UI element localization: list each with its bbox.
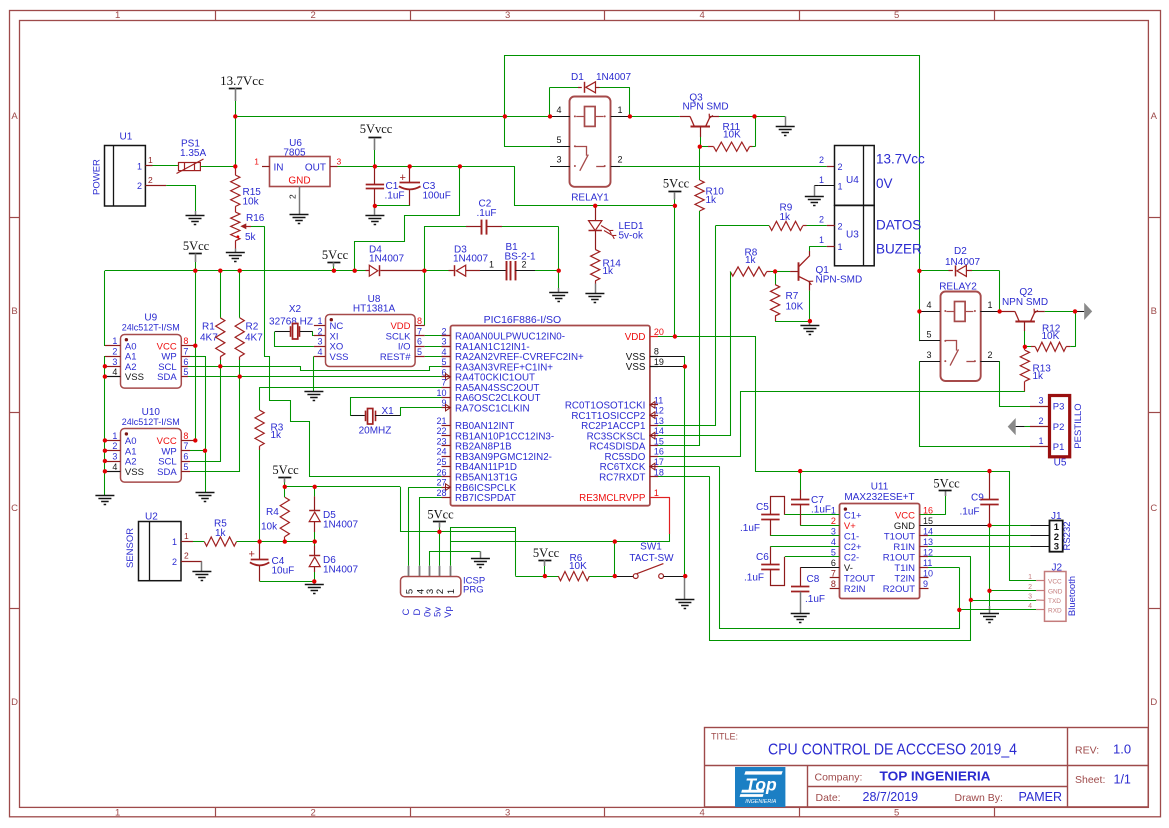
label 13.7Vcc U4: [876, 152, 925, 167]
wire X1 to RA7: [401, 408, 442, 416]
ground U4: [805, 197, 824, 206]
svg-text:3: 3: [505, 808, 510, 819]
svg-text:100uF: 100uF: [423, 191, 451, 202]
svg-text:2: 2: [137, 181, 142, 191]
wire VCC to 5V: [920, 490, 946, 515]
svg-text:1N4007: 1N4007: [596, 72, 631, 83]
connector J2 Bluetooth: [1028, 563, 1078, 622]
svg-text:5: 5: [404, 589, 415, 594]
svg-text:SW1: SW1: [640, 542, 662, 553]
svg-text:A: A: [1151, 111, 1158, 122]
svg-text:25: 25: [436, 457, 446, 467]
svg-text:6: 6: [183, 452, 188, 462]
wire U10 WP ground drop: [205, 451, 207, 492]
wire SDA line to RA4: [240, 376, 451, 378]
ground Q1: [800, 326, 819, 335]
wire 13.7V vertical to main line: [235, 116, 237, 166]
wire U8 VSS ground: [313, 356, 315, 391]
svg-text:PAMER: PAMER: [1019, 790, 1063, 804]
svg-text:15: 15: [923, 516, 933, 526]
svg-text:RC7RXDT: RC7RXDT: [599, 473, 645, 484]
svg-text:BUZER: BUZER: [876, 242, 922, 257]
svg-text:1: 1: [254, 157, 259, 167]
svg-text:2: 2: [288, 194, 298, 199]
svg-text:D1: D1: [571, 72, 584, 83]
rev box: [1075, 742, 1131, 757]
svg-text:T2OUT: T2OUT: [844, 574, 875, 585]
svg-text:GND: GND: [894, 521, 915, 532]
svg-text:2: 2: [317, 326, 322, 336]
svg-text:1.35A: 1.35A: [180, 148, 206, 159]
wire C1 C3 ground bus: [375, 206, 410, 215]
wire U6 GND pin to ground: [299, 186, 301, 214]
svg-text:CPU CONTROL DE ACCCESO 2019_4: CPU CONTROL DE ACCCESO 2019_4: [768, 742, 1017, 759]
svg-text:3: 3: [1028, 593, 1032, 600]
wire RC6 TX route: [658, 467, 960, 629]
svg-text:P2: P2: [1053, 422, 1065, 433]
svg-text:4K7: 4K7: [200, 333, 218, 344]
capacitor C6 .1uF: [744, 546, 839, 585]
svg-text:4K7: 4K7: [245, 333, 263, 344]
svg-text:1N4007: 1N4007: [323, 564, 358, 575]
svg-text:2: 2: [831, 516, 836, 526]
capacitor C3 100uF: [399, 166, 451, 206]
wire U10 VCC vertical: [181, 271, 195, 441]
connector J1 RS232: [1050, 511, 1074, 553]
wire SCL line to RA3: [220, 367, 450, 371]
svg-text:7: 7: [417, 326, 422, 336]
wire 5V zigzag to lower rail: [355, 166, 460, 270]
diode D5 1N4007: [309, 487, 358, 542]
svg-text:NPN SMD: NPN SMD: [682, 101, 728, 112]
label BUZER U3: [876, 242, 922, 257]
svg-text:Date:: Date:: [816, 792, 841, 804]
svg-text:RE3MCLRVPP: RE3MCLRVPP: [579, 493, 646, 504]
wire R6 to MCLR line: [614, 542, 616, 577]
svg-text:R16: R16: [246, 213, 265, 224]
svg-text:D: D: [1150, 697, 1157, 708]
wire VDD net: [658, 337, 1036, 581]
wire U4 pin1 to ground: [814, 186, 835, 196]
svg-text:2: 2: [310, 10, 315, 21]
wire rail to U9 A0: [105, 271, 113, 346]
wire U9 SDA stub: [181, 376, 240, 378]
svg-text:5Vcc: 5Vcc: [663, 177, 690, 191]
svg-text:R2IN: R2IN: [844, 584, 866, 595]
wire relay2 pin2 to P3: [1000, 361, 1050, 406]
svg-text:4: 4: [700, 10, 705, 21]
ground Q3: [776, 127, 795, 136]
wire X2 to XI: [313, 332, 314, 336]
svg-text:2: 2: [441, 326, 446, 336]
crystal X2 32768 HZ: [269, 304, 313, 339]
svg-text:D: D: [412, 608, 423, 615]
svg-text:SDA: SDA: [157, 467, 177, 478]
eeprom U9 24lc512T-I/SM: [105, 313, 188, 388]
svg-text:8: 8: [831, 579, 836, 589]
svg-text:2: 2: [310, 808, 315, 819]
svg-text:TITLE:: TITLE:: [711, 732, 738, 742]
wire ICSP clock riser: [409, 487, 442, 566]
svg-text:2: 2: [819, 215, 824, 225]
power symbol 5Vcc R6: [533, 546, 560, 576]
ground C1: [365, 216, 384, 225]
svg-text:1N4007: 1N4007: [369, 254, 404, 265]
resistor R14 1k: [591, 231, 622, 293]
svg-text:P1: P1: [1053, 442, 1065, 453]
svg-text:6: 6: [183, 357, 188, 367]
svg-text:C9: C9: [971, 493, 984, 504]
svg-text:1/1: 1/1: [1114, 773, 1131, 787]
svg-text:Bluetooth: Bluetooth: [1067, 576, 1078, 616]
svg-text:2: 2: [148, 175, 153, 185]
svg-text:R4: R4: [266, 507, 279, 518]
svg-text:R1OUT: R1OUT: [883, 553, 915, 564]
wire U9 U10 address bus to ground: [104, 356, 106, 496]
wire D1 left drop: [549, 87, 551, 116]
wire U10 SCL up: [181, 366, 220, 461]
svg-text:0V: 0V: [876, 176, 893, 191]
svg-text:D: D: [11, 697, 18, 708]
ground U1 pin2: [186, 216, 205, 225]
svg-text:7: 7: [183, 347, 188, 357]
fuse PS1 1.35A: [177, 139, 207, 174]
date row: [816, 790, 1063, 804]
wire VSS net: [658, 356, 685, 599]
resistor R7 10K: [771, 272, 810, 322]
svg-text:17: 17: [654, 457, 664, 467]
capacitor C1 .1uF: [366, 166, 405, 206]
svg-text:4: 4: [441, 347, 446, 357]
wire U8 I/O to RA1: [425, 346, 451, 348]
svg-text:16: 16: [654, 447, 664, 457]
svg-text:T1IN: T1IN: [894, 563, 915, 574]
svg-text:.1uF: .1uF: [740, 523, 760, 534]
power symbol 5Vcc rail right: [322, 248, 349, 271]
svg-text:1N4007: 1N4007: [453, 254, 488, 265]
svg-text:SENSOR: SENSOR: [125, 528, 136, 568]
svg-text:7: 7: [441, 378, 446, 388]
title text: [711, 732, 1017, 759]
svg-text:C5: C5: [756, 502, 769, 513]
svg-text:C: C: [11, 503, 18, 514]
svg-text:1: 1: [819, 235, 824, 245]
svg-text:2: 2: [522, 260, 527, 270]
svg-text:R2: R2: [246, 322, 259, 333]
svg-text:4: 4: [112, 367, 117, 377]
svg-text:2: 2: [819, 155, 824, 165]
power symbol 5Vvcc: [360, 122, 393, 166]
wire R1IN to J1: [920, 546, 1050, 548]
svg-text:5: 5: [894, 10, 899, 21]
wire J2 GND net: [990, 590, 1045, 592]
svg-text:5: 5: [894, 808, 899, 819]
wire relay2 coil bus: [919, 271, 921, 341]
svg-text:2: 2: [435, 589, 446, 594]
resistor R8 1k: [730, 248, 775, 277]
capacitor C2 .1uF: [425, 199, 559, 271]
svg-text:1: 1: [838, 242, 843, 252]
relay RELAY1: [550, 97, 630, 204]
ground R16: [226, 253, 245, 262]
svg-text:5v-ok: 5v-ok: [619, 231, 644, 242]
ic U11 MAX232ESE+T: [830, 482, 933, 599]
svg-text:RELAY1: RELAY1: [571, 192, 609, 203]
svg-text:A: A: [11, 111, 18, 122]
wire U6 output line: [338, 166, 515, 168]
svg-text:4: 4: [926, 300, 931, 310]
svg-text:2: 2: [838, 162, 843, 172]
connector U2 SENSOR: [125, 512, 202, 581]
svg-text:2: 2: [112, 441, 117, 451]
svg-text:R1IN: R1IN: [893, 542, 915, 553]
svg-text:TACT-SW: TACT-SW: [629, 553, 674, 564]
wire B1 C2 ground: [558, 271, 560, 292]
svg-text:VSS: VSS: [125, 372, 144, 383]
svg-text:.1uF: .1uF: [477, 208, 497, 219]
capacitor C7 .1uF: [791, 471, 839, 525]
svg-text:DATOS: DATOS: [876, 218, 921, 233]
svg-text:4: 4: [112, 462, 117, 472]
svg-text:19: 19: [654, 357, 664, 367]
svg-text:.1uF: .1uF: [811, 505, 831, 516]
resistor R3 1k: [255, 387, 442, 541]
svg-text:8: 8: [417, 316, 422, 326]
svg-text:13: 13: [923, 537, 933, 547]
connector U4: [819, 146, 874, 206]
title block: [705, 728, 1149, 808]
capacitor C4 10uF: [249, 542, 295, 582]
svg-text:C: C: [1150, 503, 1157, 514]
resistor R10 1k: [695, 147, 724, 211]
svg-text:1: 1: [446, 589, 457, 594]
svg-text:1.0: 1.0: [1113, 742, 1131, 757]
wire X2 to XO: [275, 332, 314, 347]
svg-text:SDA: SDA: [157, 372, 177, 383]
trimmer R16 5k: [231, 207, 265, 253]
svg-text:8: 8: [183, 336, 188, 346]
wire J2 VCC stub: [1036, 580, 1044, 582]
logo TOP INGENIERIA: [736, 768, 785, 807]
svg-text:1: 1: [112, 431, 117, 441]
svg-text:13.7Vcc: 13.7Vcc: [876, 152, 925, 167]
svg-text:3: 3: [1054, 542, 1059, 553]
svg-text:5: 5: [556, 135, 561, 145]
wire fuse to node: [201, 166, 236, 168]
svg-text:24lc512T-I/SM: 24lc512T-I/SM: [122, 417, 180, 427]
label 0V U4: [876, 176, 893, 191]
svg-text:2: 2: [184, 551, 189, 561]
svg-text:1k: 1k: [706, 195, 718, 206]
svg-text:VCC: VCC: [1048, 578, 1062, 585]
wire 5V rail: [105, 270, 355, 272]
svg-text:PESTILLO: PESTILLO: [1073, 403, 1084, 448]
svg-text:B: B: [1151, 306, 1157, 317]
svg-text:21: 21: [436, 416, 446, 426]
svg-text:1: 1: [115, 808, 120, 819]
svg-text:VDD: VDD: [625, 332, 646, 343]
zone row letters: [11, 111, 1157, 708]
svg-text:18: 18: [654, 467, 664, 477]
svg-text:10uF: 10uF: [272, 566, 295, 577]
svg-text:VSS: VSS: [626, 362, 646, 373]
svg-text:2: 2: [172, 557, 177, 567]
crystal X1 20MHZ: [350, 406, 401, 437]
resistor R15 10k: [231, 166, 262, 207]
ground C9: [980, 614, 999, 623]
svg-text:1k: 1k: [603, 266, 615, 277]
wire U1 pin2 to ground: [153, 186, 196, 216]
svg-text:NPN-SMD: NPN-SMD: [816, 275, 863, 286]
wire U9 VCC stub: [181, 345, 195, 347]
svg-text:GND: GND: [288, 176, 310, 187]
svg-text:IN: IN: [274, 162, 284, 173]
svg-text:C8: C8: [807, 574, 820, 585]
svg-text:10k: 10k: [243, 197, 260, 208]
capacitor C9 .1uF: [960, 471, 999, 613]
svg-text:5: 5: [926, 330, 931, 340]
svg-text:RB7ICSPDAT: RB7ICSPDAT: [455, 493, 516, 504]
wire 5Vcc down to VDD: [674, 206, 676, 337]
svg-text:TOP INGENIERIA: TOP INGENIERIA: [880, 770, 991, 784]
svg-text:1N4007: 1N4007: [323, 520, 358, 531]
svg-text:T1OUT: T1OUT: [884, 532, 915, 543]
svg-text:U11: U11: [871, 482, 889, 493]
rtc U8 HT1381A: [314, 294, 425, 367]
svg-text:1: 1: [819, 175, 824, 185]
svg-text:R7: R7: [786, 291, 799, 302]
svg-text:5: 5: [441, 357, 446, 367]
svg-text:26: 26: [436, 467, 446, 477]
svg-text:INGENIERIA: INGENIERIA: [745, 799, 777, 805]
connector U1 POWER: [92, 132, 154, 207]
ground arrow P2: [1008, 418, 1050, 435]
wire U9 WP to U10 WP: [181, 356, 205, 451]
svg-text:1: 1: [148, 155, 153, 165]
svg-text:1k: 1k: [745, 255, 757, 266]
wire U10 SDA up: [181, 377, 239, 472]
connector U5 PESTILLO: [1038, 395, 1084, 468]
svg-text:4: 4: [831, 537, 836, 547]
svg-text:2: 2: [988, 350, 993, 360]
ground U9 U10 address pins: [95, 496, 114, 505]
wire ICSP data riser: [420, 498, 442, 566]
svg-text:NPN SMD: NPN SMD: [1002, 297, 1048, 308]
svg-text:2: 2: [618, 155, 623, 165]
svg-text:1: 1: [317, 316, 322, 326]
wire relay1 5V rail: [515, 205, 675, 207]
power symbol 5Vcc relay1 rail: [663, 177, 690, 206]
svg-text:C1-: C1-: [844, 532, 859, 543]
svg-text:U1: U1: [120, 132, 133, 143]
svg-text:1: 1: [172, 537, 177, 547]
sheet box: [1075, 773, 1131, 787]
svg-text:REST#: REST#: [380, 352, 411, 363]
svg-text:1: 1: [618, 105, 623, 115]
svg-text:8: 8: [654, 347, 659, 357]
connector U3: [819, 206, 874, 267]
svg-text:OUT: OUT: [305, 162, 326, 173]
transistor Q3 NPN SMD: [630, 93, 729, 147]
wire relay2 pin3 to P1: [920, 361, 1050, 446]
wire Q1 emitter ground: [809, 321, 811, 325]
wire 5V R4 D5 segment: [285, 487, 516, 532]
wire 5V down to relay1 rail: [515, 166, 675, 205]
svg-text:20MHZ: 20MHZ: [359, 426, 392, 437]
svg-text:1: 1: [184, 531, 189, 541]
svg-text:3: 3: [112, 452, 117, 462]
svg-text:U3: U3: [846, 229, 859, 240]
resistor R9 1k: [715, 203, 834, 231]
svg-text:PRG: PRG: [463, 585, 484, 596]
svg-text:1: 1: [838, 182, 843, 192]
wire U8 REST# to RA2: [425, 356, 451, 358]
wire Q3 collector to ground: [719, 116, 786, 126]
svg-text:3: 3: [112, 357, 117, 367]
wire RC7 RX route: [658, 477, 971, 641]
LED LED1 5v-ok: [589, 206, 644, 242]
svg-text:5: 5: [183, 367, 188, 377]
svg-text:28: 28: [436, 488, 446, 498]
svg-text:2: 2: [838, 222, 843, 232]
svg-text:U4: U4: [846, 175, 859, 186]
wire 13.7V rail: [235, 116, 550, 118]
svg-text:4: 4: [556, 105, 561, 115]
voltage regulator U6 7805: [254, 138, 341, 199]
wire R1OUT net: [920, 556, 971, 558]
wire U2 pin2 ground: [201, 561, 203, 571]
svg-text:4: 4: [317, 347, 322, 357]
wire C4 ground line: [260, 581, 315, 584]
svg-text:BS-2-1: BS-2-1: [505, 252, 537, 263]
svg-text:R2OUT: R2OUT: [883, 584, 915, 595]
svg-text:5v: 5v: [433, 607, 444, 617]
svg-text:.1uF: .1uF: [385, 191, 405, 202]
svg-text:POWER: POWER: [92, 159, 103, 195]
svg-text:27: 27: [436, 478, 446, 488]
svg-text:RXD: RXD: [1048, 607, 1062, 614]
power symbol 5Vcc ICSP: [427, 508, 454, 566]
relay RELAY2: [919, 282, 999, 382]
svg-text:U5: U5: [1054, 458, 1067, 469]
resistor R11 10K: [700, 116, 756, 151]
buzzer B1 BS-2-1: [480, 242, 559, 280]
svg-text:11: 11: [923, 558, 932, 568]
diode D2 1N4007: [919, 246, 999, 276]
svg-text:3: 3: [1038, 395, 1043, 405]
svg-text:Sheet:: Sheet:: [1075, 774, 1105, 786]
label DATOS U3: [876, 218, 921, 233]
svg-text:C1+: C1+: [844, 511, 862, 522]
svg-text:10K: 10K: [1042, 331, 1060, 342]
wire U8 VDD feed: [424, 271, 426, 326]
svg-text:.1uF: .1uF: [744, 573, 764, 584]
wire 5V to R6 line: [439, 531, 515, 533]
svg-text:8: 8: [183, 431, 188, 441]
wire R16 wiper to RB5 (AN13): [251, 226, 442, 476]
wire T1IN net: [920, 567, 960, 569]
svg-text:13: 13: [654, 416, 664, 426]
svg-text:1k: 1k: [780, 212, 792, 223]
svg-text:3: 3: [505, 10, 510, 21]
ground U6: [290, 215, 309, 224]
diode D1 1N4007: [550, 72, 632, 93]
resistor R13 1k: [1020, 347, 1051, 392]
ground C8: [791, 614, 810, 623]
svg-text:T2IN: T2IN: [894, 574, 915, 585]
svg-text:RS232: RS232: [1062, 521, 1073, 550]
ground ICSP: [471, 559, 490, 568]
